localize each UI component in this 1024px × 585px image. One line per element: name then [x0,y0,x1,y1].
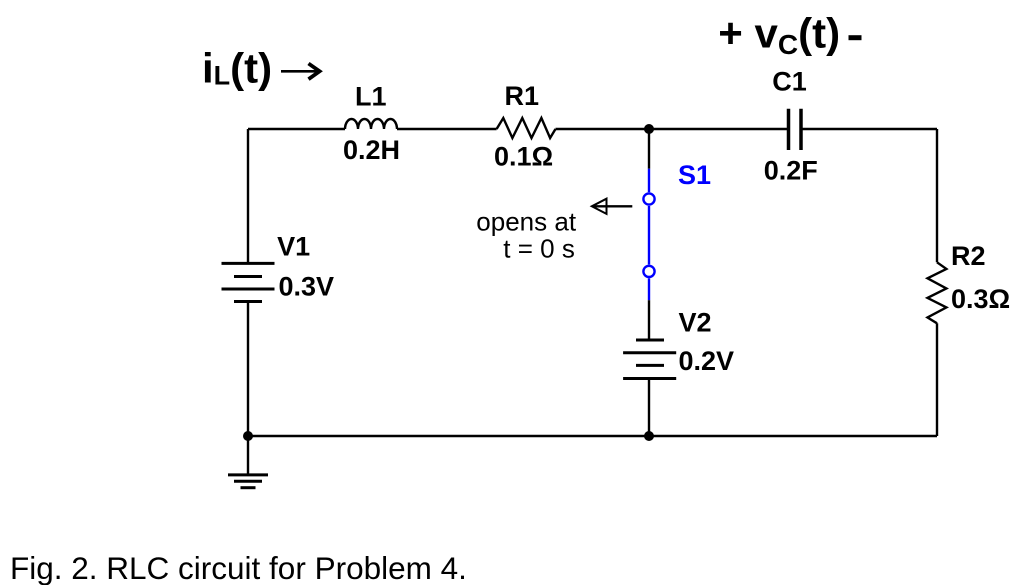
svg-text:L1: L1 [355,81,387,111]
node bottom-left junction dot [243,431,253,441]
switch S1 [643,169,654,301]
wire middle branch black upper [648,129,650,169]
wire L1 to R1 [397,128,497,130]
battery V2 [623,340,676,379]
wire top-left segment (node A to L1) [248,128,345,130]
svg-text:0.2V: 0.2V [679,346,735,376]
wire R1 to C1 [556,128,788,130]
svg-text:iL(t): iL(t) [202,45,272,92]
inductor L1 [345,119,397,129]
svg-text:V1: V1 [277,231,310,261]
svg-text:0.3Ω: 0.3Ω [951,284,1010,314]
wire ground stem [247,436,249,475]
ground [228,475,268,488]
svg-text:0.3V: 0.3V [279,272,335,302]
svg-text:0.1Ω: 0.1Ω [494,142,553,172]
wire right vertical lower [936,323,938,436]
arrow for iL(t) [281,70,317,73]
svg-text:0.2F: 0.2F [764,156,818,186]
resistor R2 [928,262,947,323]
node A (top middle junction dot) [644,124,654,134]
svg-text:R2: R2 [951,241,986,271]
svg-text:C1: C1 [772,67,807,97]
label vC(t) minus sign [849,35,862,40]
wire middle black below switch [648,300,650,340]
svg-text:Fig. 2. RLC circuit for Proble: Fig. 2. RLC circuit for Problem 4. [10,550,467,585]
svg-text:V2: V2 [679,308,712,338]
wire C1 to top-right corner [803,128,938,130]
svg-text:opens at: opens at [476,206,577,236]
capacitor C1 [789,109,802,150]
svg-text:R1: R1 [505,81,540,111]
wire V2 to bottom node [648,379,650,437]
wire bottom [248,435,937,437]
battery V1 [222,263,275,301]
svg-text:S1: S1 [678,160,711,190]
wire right vertical upper [936,129,938,262]
wire left vertical (top corner to V1) [247,129,249,263]
wire V1 to bottom-left corner [247,302,249,437]
node bottom middle junction dot [644,431,654,441]
svg-text:t = 0 s: t = 0 s [503,233,575,263]
annotation arrow (points to switch) [592,199,607,214]
svg-text:0.2H: 0.2H [343,135,400,165]
resistor R1 [497,118,556,138]
